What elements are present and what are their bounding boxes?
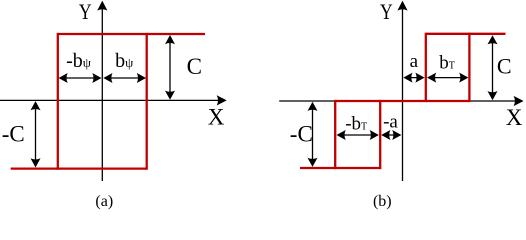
plot (a) relay hysteresis curve: top branch y=+C [58, 33, 205, 35]
plot (a) Y axis arrowhead [97, 1, 107, 11]
plot (b) upper loop: left switching line x=+a [425, 33, 427, 102]
plot (b) lower loop: left switching line x=-b_T [334, 100, 336, 169]
svg-text:-C: -C [2, 121, 25, 146]
svg-text:C: C [187, 54, 202, 79]
plot (a) relay hysteresis curve: right switching line x=+b [146, 33, 148, 170]
plot (b) dimension arrow -b_T (between x=-b_T and x=-a) [337, 130, 379, 140]
plot (b) dimension arrow -C (from X axis to bottom branch) [308, 102, 318, 167]
plot (a) dimension arrow -b (between x=-b and Y axis) [59, 73, 102, 83]
plot (a) dimension arrow +b (between Y axis and x=+b) [103, 73, 146, 83]
svg-text:Y: Y [380, 0, 393, 24]
plot (b) dimension arrow -a (between x=-a and Y axis) [381, 130, 401, 140]
svg-text:-a: -a [383, 111, 398, 132]
plot (b) upper loop: top branch y=+C [426, 33, 506, 35]
plot (b) dimension arrow b_T (between x=+a and x=+b_T) [427, 73, 468, 83]
svg-text:C: C [497, 54, 512, 79]
svg-text:(b): (b) [373, 193, 392, 210]
svg-text:Y: Y [79, 0, 92, 24]
plot (b) dead-zone branch along X axis [335, 100, 469, 102]
plot (a) dimension arrow -C (from X axis to bottom branch) [31, 101, 41, 167]
plot (b) Y axis [402, 8, 404, 181]
plot (a) X axis arrowhead [217, 95, 227, 105]
plot (b) lower loop: bottom branch y=-C [300, 167, 380, 169]
svg-text:X: X [506, 105, 523, 130]
svg-text:-C: -C [290, 121, 313, 146]
plot (a) relay hysteresis curve: left switching line x=-b [57, 33, 59, 170]
plot (a) X axis [0, 99, 218, 101]
plot (a) relay hysteresis curve: bottom branch y=-C [11, 167, 147, 169]
plot (b) dimension arrow a (between Y axis and x=+a) [403, 73, 424, 83]
svg-text:X: X [208, 104, 225, 129]
plot (b) lower loop: right switching line x=-a [379, 100, 381, 169]
plot (a) Y axis [101, 8, 103, 181]
plot (b) upper loop: right switching line x=+b_T [468, 33, 470, 102]
plot (b) dimension arrow C (from top branch to X axis) [488, 35, 498, 100]
plot (a) dimension arrow C (from top branch to X axis) [165, 35, 175, 100]
plot (b) X axis arrowhead [514, 96, 524, 106]
svg-text:a: a [410, 51, 419, 72]
svg-text:(a): (a) [95, 193, 113, 210]
plot (b) X axis [279, 100, 515, 102]
plot (b) Y axis arrowhead [397, 1, 407, 11]
